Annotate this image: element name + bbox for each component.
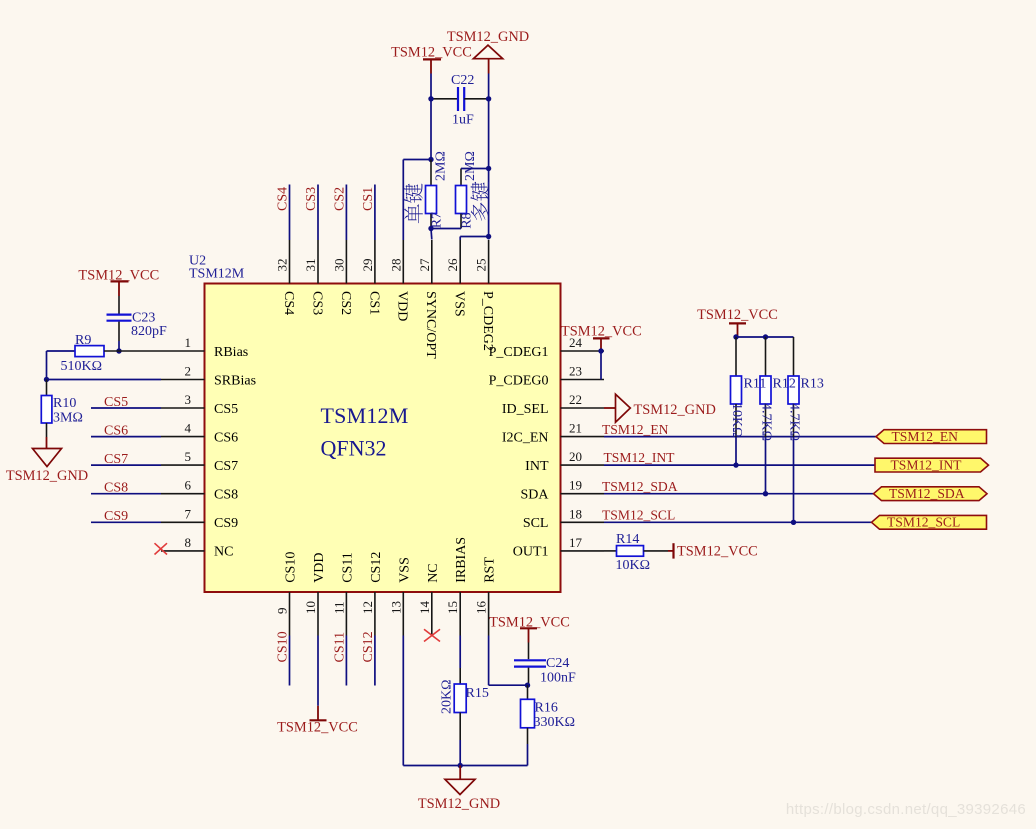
svg-text:CS1: CS1 (366, 291, 381, 315)
pin 13 (VSS) bottom side (388, 557, 412, 635)
svg-text:R11: R11 (744, 377, 767, 392)
svg-text:RST: RST (483, 557, 498, 583)
svg-text:SCL: SCL (523, 516, 549, 531)
svg-text:7: 7 (185, 506, 192, 521)
wire + net label CS1 (pin 29) top (361, 185, 376, 241)
pin 3 (CS5) left side (161, 392, 238, 417)
wire R7 bottom to pin 27 (430, 229, 433, 240)
svg-text:CS10: CS10 (284, 552, 299, 583)
svg-text:I2C_EN: I2C_EN (502, 430, 549, 445)
pin 7 (CS9) left side (161, 506, 238, 531)
svg-text:TSM12_VCC: TSM12_VCC (697, 307, 778, 323)
svg-text:R15: R15 (466, 686, 489, 701)
wire VCC column (top) (430, 74, 432, 160)
wire + net label CS2 (pin 30) top (332, 185, 347, 241)
svg-text:R7: R7 (430, 212, 445, 228)
power port TSM12_VCC (bottom, pin 10) (277, 706, 358, 736)
R16 designator (535, 701, 558, 716)
svg-text:4.7KΩ: 4.7KΩ (787, 403, 802, 441)
svg-text:TSM12_SDA: TSM12_SDA (602, 479, 678, 494)
junction rail/R12 (763, 334, 768, 339)
R13 designator (801, 377, 824, 392)
C23 value 820pF (131, 324, 167, 339)
svg-text:20KΩ: 20KΩ (439, 679, 454, 714)
svg-text:2MΩ: 2MΩ (463, 151, 478, 181)
svg-text:CS7: CS7 (214, 459, 238, 474)
C22 value 1uF (452, 113, 474, 128)
power port TSM12_VCC (top) (391, 44, 472, 73)
capacitor C23 (107, 315, 132, 341)
svg-text:R10: R10 (53, 396, 76, 411)
junction R8 top on GND column (486, 166, 491, 171)
svg-text:TSM12_GND: TSM12_GND (6, 468, 88, 484)
power port TSM12_VCC (pin 24) (561, 323, 642, 351)
svg-text:13: 13 (388, 601, 403, 614)
net label TSM12_EN (602, 422, 669, 437)
svg-text:P_CDEG0: P_CDEG0 (489, 373, 549, 388)
svg-text:3MΩ: 3MΩ (53, 411, 83, 426)
resistor R8 (456, 169, 467, 229)
svg-text:TSM12_INT: TSM12_INT (604, 450, 676, 465)
R14 designator (616, 532, 639, 547)
svg-text:15: 15 (445, 601, 460, 614)
svg-text:TSM12_GND: TSM12_GND (418, 796, 500, 812)
junction RST/C24/R16 node (525, 683, 530, 688)
svg-text:P_CDEG1: P_CDEG1 (489, 345, 549, 360)
wire + net label CS7 (pin 5) (91, 452, 161, 467)
resistor R11 (731, 337, 742, 465)
wire R8 top to GND column (461, 168, 489, 170)
R10 designator (53, 396, 76, 411)
svg-text:CS4: CS4 (276, 187, 291, 211)
svg-text:100nF: 100nF (540, 671, 576, 686)
R10 value 3MOhm (53, 411, 83, 426)
svg-text:SYNC/OPT: SYNC/OPT (423, 291, 438, 359)
R12 value 4.7KOhm (759, 403, 774, 441)
net label TSM12_INT (604, 450, 676, 465)
svg-text:29: 29 (360, 259, 375, 272)
svg-text:820pF: 820pF (131, 324, 167, 339)
IC U2 TSM12M QFN32 body (205, 284, 561, 593)
resistor R14 (604, 546, 668, 557)
svg-text:CS6: CS6 (104, 423, 128, 438)
pin 21 (I2C_EN) right side (502, 421, 604, 446)
junction VSS on GND column (486, 234, 491, 239)
power port TSM12_GND (top) (447, 29, 529, 74)
svg-text:CS8: CS8 (104, 481, 128, 496)
svg-text:27: 27 (417, 258, 432, 272)
power port TSM12_VCC (above R11-R13) (697, 307, 778, 337)
svg-text:1uF: 1uF (452, 113, 474, 128)
pin 22 (ID_SEL) right side (502, 392, 604, 417)
pin 20 (INT) right side (525, 449, 604, 474)
power port TSM12_GND (left) (6, 437, 88, 484)
pin 11 (CS11) bottom side (331, 552, 355, 635)
svg-text:R12: R12 (773, 377, 796, 392)
pin 6 (CS8) left side (161, 478, 238, 503)
pin 5 (CS7) left side (161, 449, 238, 474)
svg-text:TSM12_VCC: TSM12_VCC (391, 44, 472, 60)
watermark text (786, 801, 1026, 818)
svg-text:23: 23 (569, 364, 582, 379)
junction R12/SDA line (763, 491, 768, 496)
pin 14 (NC) bottom side (417, 563, 441, 635)
R7 value 2MOhm (434, 151, 449, 181)
wire + net label CS4 (pin 32) top (276, 185, 291, 241)
svg-text:CS10: CS10 (276, 631, 291, 662)
pin 30 (CS2) top side (331, 240, 352, 315)
no-connect X on pin 14 (424, 629, 440, 641)
svg-text:ID_SEL: ID_SEL (502, 402, 549, 417)
svg-text:6: 6 (185, 478, 192, 493)
svg-text:3: 3 (185, 392, 192, 407)
R11 designator (744, 377, 767, 392)
svg-text:CS6: CS6 (214, 430, 238, 445)
power port TSM12_GND (pin 22) (604, 394, 716, 422)
pin 32 (CS4) top side (275, 240, 296, 315)
svg-text:22: 22 (569, 392, 582, 407)
capacitor C24 (514, 643, 546, 686)
wire VCC to C23 (118, 296, 120, 314)
wire pin24 down to pin23 (600, 351, 602, 380)
svg-text:4: 4 (185, 421, 192, 436)
pin 24 (P_CDEG1) right side (489, 335, 604, 360)
pin 25 (P_CDEG2) top side (474, 240, 495, 351)
wire TSM12_SDA (pin 19 to port) (604, 493, 874, 495)
svg-text:10KΩ: 10KΩ (616, 558, 651, 573)
wire + net label CS10 (pin 9) (276, 631, 291, 685)
svg-text:TSM12_VCC: TSM12_VCC (561, 323, 642, 339)
svg-text:TSM12_GND: TSM12_GND (634, 402, 716, 418)
svg-text:VSS: VSS (397, 557, 412, 583)
svg-text:CS7: CS7 (104, 452, 128, 467)
svg-text:2MΩ: 2MΩ (434, 151, 449, 181)
resistor R9 (47, 346, 162, 357)
svg-text:2: 2 (185, 364, 192, 379)
R15 value 20KOhm (439, 679, 454, 714)
label multi-key (Chinese) for R8 (470, 182, 489, 221)
wire SRBias to pin 2 (47, 379, 162, 381)
svg-text:CS3: CS3 (304, 187, 319, 211)
svg-text:25: 25 (474, 259, 489, 272)
svg-text:10: 10 (303, 601, 318, 614)
pin 29 (CS1) top side (360, 240, 381, 315)
wire VDD(28) up and over to R7 top (403, 160, 431, 241)
port TSM12_EN (876, 429, 987, 444)
svg-text:SDA: SDA (520, 488, 549, 503)
svg-text:9: 9 (275, 608, 290, 615)
svg-text:IRBIAS: IRBIAS (454, 537, 469, 583)
pin 19 (SDA) right side (520, 478, 604, 503)
R8 designator (460, 212, 475, 228)
svg-text:5: 5 (185, 449, 192, 464)
junction C22 right (486, 96, 491, 101)
svg-text:TSM12M: TSM12M (321, 403, 409, 428)
wire + net label CS9 (pin 7) (91, 509, 161, 524)
svg-text:CS2: CS2 (332, 187, 347, 211)
svg-text:4.7KΩ: 4.7KΩ (759, 403, 774, 441)
pin 9 (CS10) bottom side (275, 552, 299, 636)
svg-text:TSM12_SCL: TSM12_SCL (887, 515, 960, 530)
wire + net label CS5 (pin 3) (91, 395, 161, 410)
svg-text:CS11: CS11 (332, 632, 347, 663)
svg-text:14: 14 (417, 601, 432, 615)
C24 value 100nF (540, 671, 576, 686)
wire TSM12_SCL (pin 18 to port) (604, 521, 872, 523)
port TSM12_SDA (874, 486, 988, 501)
chip designator U2 (189, 254, 206, 269)
junction at SRBias branch (44, 377, 49, 382)
svg-text:INT: INT (525, 459, 549, 474)
junction R11/INT line (733, 462, 738, 467)
no-connect X on pin 8 (155, 543, 168, 554)
wire C23 to RBias line (118, 341, 120, 351)
wire TSM12_EN (pin 21 to port) (604, 436, 876, 438)
svg-text:TSM12_VCC: TSM12_VCC (277, 720, 358, 736)
pin 2 (SRBias) left side (161, 364, 256, 389)
svg-text:R14: R14 (616, 532, 639, 547)
wire TSM12_INT (pin 20 to port) (604, 464, 875, 466)
resistor R12 (760, 337, 771, 494)
R8 value 2MOhm (463, 151, 478, 181)
R11 value 10KOhm (729, 403, 744, 438)
svg-text:CS5: CS5 (104, 395, 128, 410)
R9 designator (75, 333, 91, 348)
pin 23 (P_CDEG0) right side (489, 364, 604, 389)
svg-text:SRBias: SRBias (214, 373, 256, 388)
R15 designator (466, 686, 489, 701)
pin 12 (CS12) bottom side (360, 552, 384, 636)
svg-text:TSM12_GND: TSM12_GND (447, 29, 529, 45)
svg-text:CS5: CS5 (214, 402, 238, 417)
svg-text:CS8: CS8 (214, 488, 238, 503)
power port TSM12_GND (bottom) (418, 766, 500, 812)
svg-text:CS4: CS4 (281, 291, 296, 315)
svg-text:12: 12 (360, 601, 375, 614)
svg-text:CS3: CS3 (309, 291, 324, 315)
label single-key (Chinese) for R7 (404, 184, 423, 224)
C23 designator (132, 311, 155, 326)
svg-text:OUT1: OUT1 (513, 545, 549, 560)
svg-text:C24: C24 (546, 656, 569, 671)
wire RST(16) to C24/R16 node (489, 636, 528, 686)
R7 designator (430, 212, 445, 228)
svg-text:CS9: CS9 (104, 509, 128, 524)
svg-text:NC: NC (214, 545, 233, 560)
wire VDD(10) down to VCC (317, 636, 319, 706)
R13 value 4.7KOhm (787, 403, 802, 441)
R9 value 510KOhm (61, 359, 103, 374)
svg-text:R9: R9 (75, 333, 91, 348)
svg-text:CS1: CS1 (361, 187, 376, 211)
svg-text:1: 1 (185, 335, 192, 350)
power port TSM12_VCC (above C24) (489, 614, 570, 642)
svg-text:R8: R8 (460, 212, 475, 228)
svg-text:TSM12_SCL: TSM12_SCL (602, 507, 675, 522)
svg-text:CS2: CS2 (338, 291, 353, 315)
port TSM12_SCL (872, 515, 987, 530)
junction C22 left (428, 96, 433, 101)
svg-text:16: 16 (474, 601, 489, 615)
wire + net label CS6 (pin 4) (91, 423, 161, 438)
svg-text:CS12: CS12 (361, 631, 376, 662)
pin 28 (VDD) top side (388, 240, 409, 321)
R12 designator (773, 377, 796, 392)
svg-text:QFN32: QFN32 (321, 435, 387, 460)
wire + net label CS3 (pin 31) top (304, 185, 319, 241)
svg-text:510KΩ: 510KΩ (61, 359, 103, 374)
svg-text:8: 8 (185, 535, 192, 550)
chip title TSM12M (321, 403, 409, 428)
net label TSM12_SDA (602, 479, 678, 494)
C24 designator (546, 656, 569, 671)
pin 16 (RST) bottom side (474, 557, 498, 636)
svg-text:28: 28 (388, 259, 403, 272)
svg-text:VDD: VDD (395, 291, 410, 321)
pin 17 (OUT1) right side (513, 535, 604, 560)
wire VCC rail over R11-R13 (736, 336, 794, 338)
svg-text:18: 18 (569, 506, 582, 521)
net label TSM12_SCL (602, 507, 675, 522)
svg-text:21: 21 (569, 421, 582, 436)
pin 8 (NC) left side (161, 535, 233, 560)
svg-text:VDD: VDD (312, 552, 327, 582)
wire + net label CS11 (pin 11) (332, 632, 347, 686)
junction R7 top (428, 157, 433, 162)
R16 value 330KOhm (534, 715, 576, 730)
svg-text:330KΩ: 330KΩ (534, 715, 576, 730)
svg-text:TSM12_EN: TSM12_EN (602, 422, 669, 437)
wire VSS(26) to GND column (460, 237, 488, 241)
wire GND column (top) (488, 74, 490, 240)
wire + net label CS8 (pin 6) (91, 481, 161, 496)
resistor R15 (454, 636, 466, 766)
chip subtitle QFN32 (321, 435, 387, 460)
svg-text:20: 20 (569, 449, 582, 464)
svg-text:C22: C22 (451, 73, 474, 88)
svg-text:17: 17 (569, 535, 583, 550)
svg-text:P_CDEG2: P_CDEG2 (480, 291, 495, 351)
junction rail/R11 (733, 334, 738, 339)
svg-text:TSM12_VCC: TSM12_VCC (677, 544, 758, 560)
junction pin24/VCC (598, 348, 603, 353)
svg-text:RBias: RBias (214, 345, 248, 360)
svg-text:TSM12_SDA: TSM12_SDA (889, 486, 965, 501)
resistor R7 (426, 160, 437, 229)
svg-text:11: 11 (331, 601, 346, 614)
svg-text:10KΩ: 10KΩ (729, 403, 744, 438)
svg-text:CS9: CS9 (214, 516, 238, 531)
power port TSM12_VCC (left, above C23) (78, 267, 159, 296)
svg-text:26: 26 (445, 258, 460, 272)
port TSM12_INT (875, 457, 989, 472)
wire VSS(13) down (402, 636, 404, 766)
pin 26 (VSS) top side (445, 240, 466, 317)
junction at C23/RBias (116, 348, 121, 353)
junction R13/SCL line (791, 520, 796, 525)
pin 1 (RBias) left side (161, 335, 248, 360)
svg-text:TSM12_EN: TSM12_EN (892, 429, 959, 444)
wire GND rail (bottom) (403, 765, 527, 767)
resistor R16 (521, 685, 535, 765)
pin 18 (SCL) right side (523, 506, 604, 531)
wire + net label CS12 (pin 12) (361, 631, 376, 685)
chip part name TSM12M (189, 267, 245, 282)
wire R8 bottom to R7 bottom (431, 228, 461, 230)
R14 value 10KOhm (616, 558, 651, 573)
junction R15/GND rail (458, 763, 463, 768)
svg-text:19: 19 (569, 478, 582, 493)
svg-text:R13: R13 (801, 377, 824, 392)
junction R7 bottom (428, 226, 433, 231)
wire R9 corner down to SRBias (46, 351, 48, 380)
resistor R10 (41, 380, 52, 438)
power port TSM12_VCC (after R14) (668, 543, 758, 560)
pin 10 (VDD) bottom side (303, 552, 327, 635)
svg-text:VSS: VSS (452, 291, 467, 317)
pin 27 (SYNC/OPT) top side (417, 240, 438, 359)
svg-text:CS11: CS11 (340, 552, 355, 583)
capacitor C22 (431, 87, 489, 111)
svg-text:32: 32 (275, 259, 290, 272)
svg-text:31: 31 (303, 259, 318, 272)
pin 4 (CS6) left side (161, 421, 238, 446)
pin 31 (CS3) top side (303, 240, 324, 315)
resistor R13 (788, 337, 799, 522)
svg-text:TSM12M: TSM12M (189, 267, 245, 282)
pin 15 (IRBIAS) bottom side (445, 537, 469, 636)
svg-text:CS12: CS12 (369, 552, 384, 583)
svg-text:30: 30 (331, 259, 346, 272)
svg-text:R16: R16 (535, 701, 558, 716)
svg-text:TSM12_INT: TSM12_INT (891, 457, 963, 472)
svg-text:NC: NC (426, 563, 441, 582)
C22 designator (451, 73, 474, 88)
